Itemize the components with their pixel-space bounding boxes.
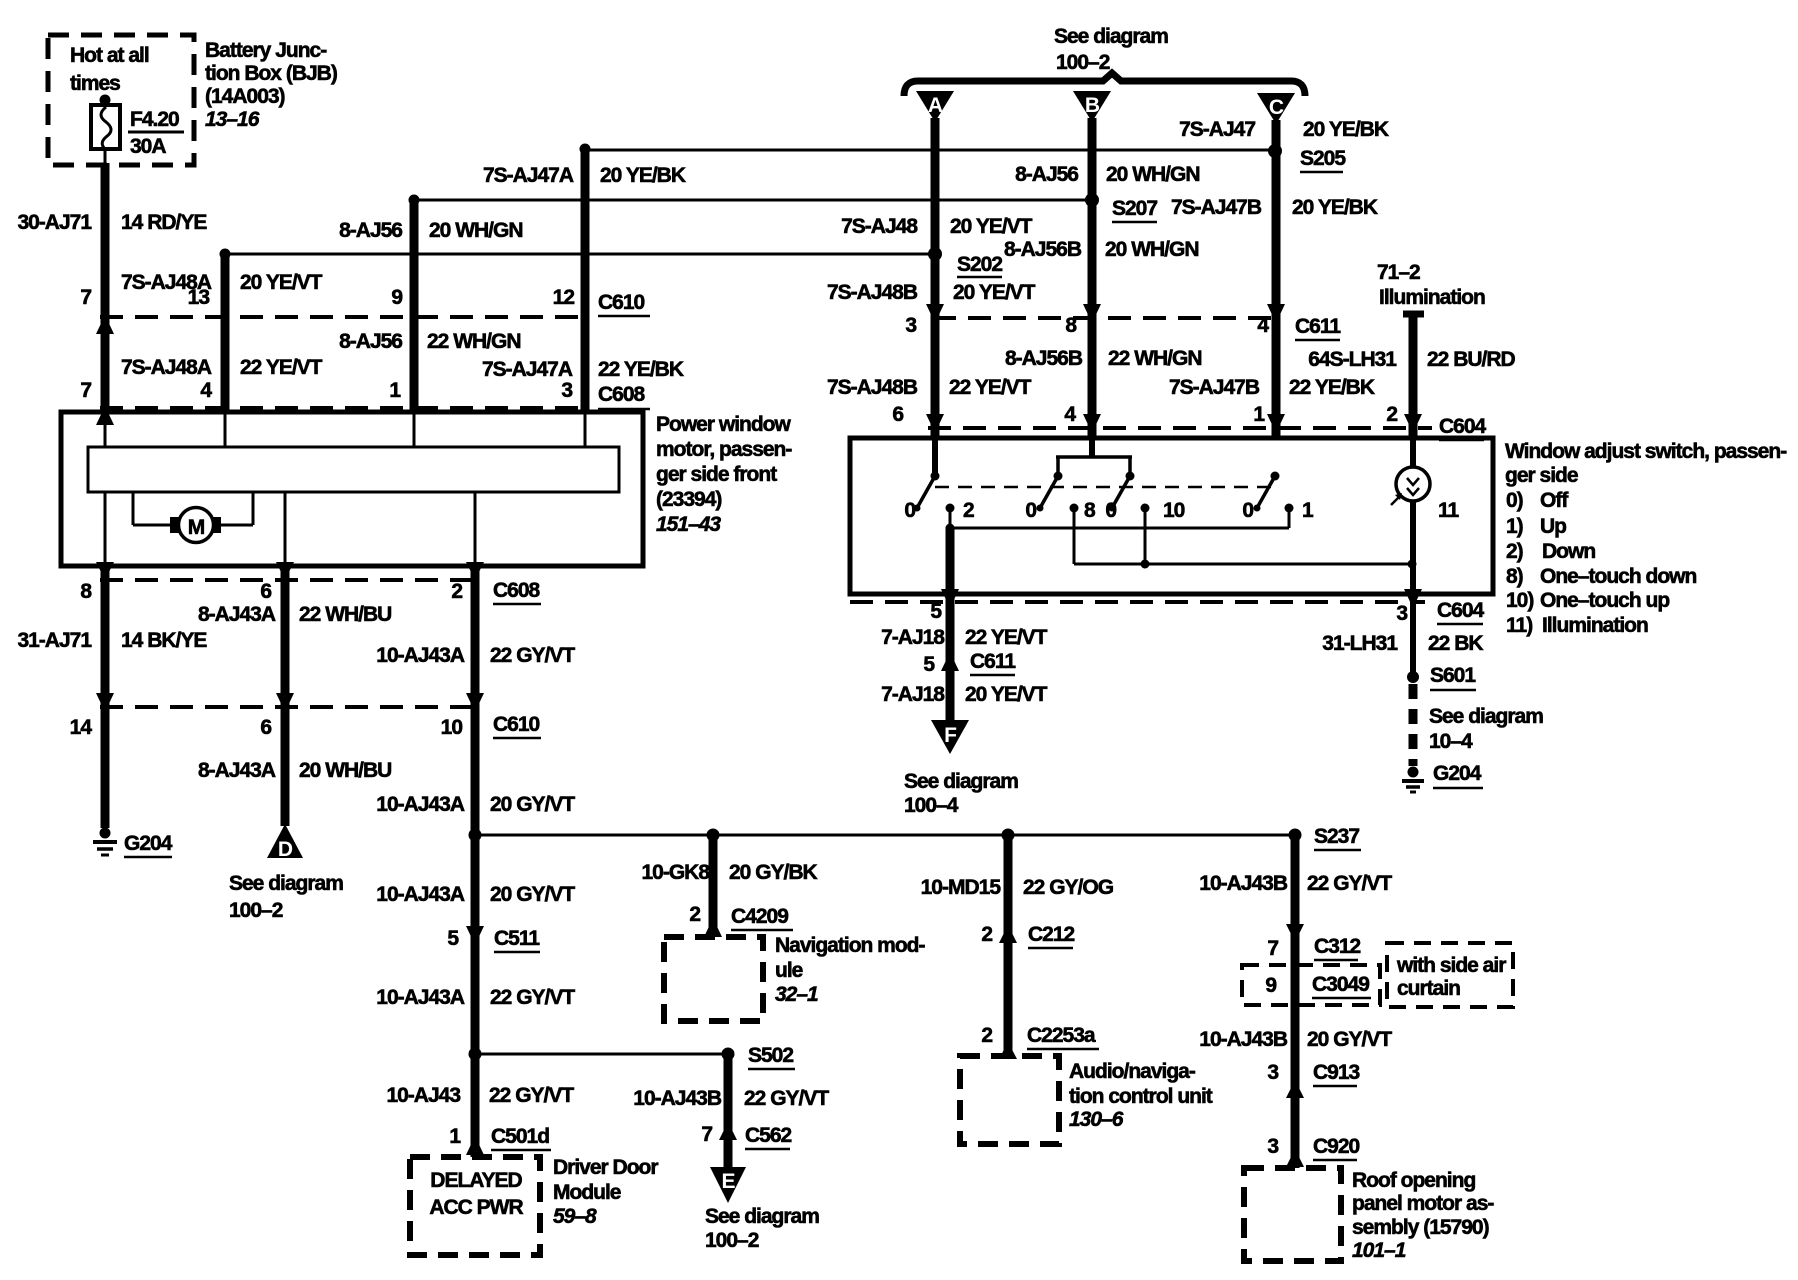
arrow on wire at C610 pin 7 [96,315,114,334]
label 7S-AJ48B 22 YE/VT [827,376,1032,399]
svg-text:G204: G204 [124,832,173,855]
label Power window motor [656,413,792,536]
label See diagram 100-2 (D) [229,872,343,922]
svg-text:2: 2 [689,903,700,926]
svg-text:5: 5 [930,600,942,623]
svg-text:M: M [188,516,205,539]
svg-text:101–1: 101–1 [1352,1239,1406,1262]
svg-text:11: 11 [1438,499,1460,522]
svg-text:Module: Module [553,1181,621,1204]
wires into motor box [105,413,585,447]
svg-text:Window adjust switch, passen-: Window adjust switch, passen- [1505,440,1787,463]
splice S237 [1289,825,1362,850]
svg-text:C604: C604 [1437,599,1485,622]
label 10-AJ43A 20 GY/VT (below junction) [376,883,575,906]
inline connector C312 pin 7 [1267,924,1360,960]
label 7S-AJ48 20 YE/VT [841,215,1033,238]
splice S601 [1407,664,1476,690]
legend 10) One-touch up [1506,589,1669,612]
junction dot 10-MD15 [1002,829,1015,842]
off-page arrow F [931,720,969,754]
legend 1) Up [1506,515,1566,538]
label Driver Door Module 59-8 [553,1156,658,1228]
svg-text:2: 2 [963,499,974,522]
svg-text:C611: C611 [970,650,1016,673]
svg-text:7S-AJ47A: 7S-AJ47A [482,358,573,381]
label C608 [598,383,650,409]
svg-text:ger side: ger side [1505,464,1578,487]
wire 30-AJ71 from fuse [104,148,107,413]
pin numbers C604 top [892,403,1397,426]
svg-text:100–2: 100–2 [1056,51,1110,74]
svg-text:C212: C212 [1028,923,1075,946]
svg-text:22 GY/VT: 22 GY/VT [489,1084,574,1107]
svg-text:S207: S207 [1112,197,1157,220]
svg-text:Roof opening: Roof opening [1352,1169,1475,1192]
svg-text:C610: C610 [598,291,645,314]
svg-text:22 YE/BK: 22 YE/BK [1289,376,1375,399]
svg-text:30-AJ71: 30-AJ71 [17,211,92,234]
label 10-AJ43 22 GY/VT [386,1084,574,1107]
svg-text:C562: C562 [745,1124,792,1147]
svg-text:10–4: 10–4 [1429,730,1473,753]
label 30-AJ71 14 RD/YE [17,211,207,234]
label C604 bottom [1437,599,1485,624]
svg-text:Navigation mod-: Navigation mod- [775,934,926,957]
svg-text:Hot at all: Hot at all [70,44,149,67]
pin numbers C610 [80,286,574,309]
svg-text:C501d: C501d [491,1125,549,1148]
fuse F4.20 30A [91,95,184,159]
svg-text:E: E [721,1170,735,1193]
svg-text:S202: S202 [957,253,1002,276]
svg-text:5: 5 [447,927,459,950]
svg-text:10-AJ43B: 10-AJ43B [633,1087,722,1110]
svg-text:motor, passen-: motor, passen- [656,438,792,461]
wire labels above C610 [121,271,323,294]
svg-text:20 GY/VT: 20 GY/VT [490,883,575,906]
splice S205 [1268,144,1346,172]
pin numbers C608 [80,379,572,402]
svg-text:C920: C920 [1313,1135,1360,1158]
svg-text:22 BK: 22 BK [1428,632,1483,655]
label C610 [598,291,650,316]
svg-text:C3049: C3049 [1312,973,1369,996]
label See diagram 100-4 [904,770,1018,817]
legend 2) Down [1506,540,1595,563]
inline connector C913 pin 3 [1267,1061,1359,1098]
svg-text:10-GK8: 10-GK8 [641,861,710,884]
switch 1 pole from wire A [914,438,940,512]
svg-text:20 WH/GN: 20 WH/GN [1105,238,1199,261]
svg-text:20 GY/VT: 20 GY/VT [490,793,575,816]
arrows at C604 entering switch [926,414,1422,433]
inline connector C562 pin 7 [701,1122,791,1149]
label 7S-AJ47B 22 YE/BK [1169,376,1375,399]
wire labels between C610 and C608 [121,356,323,379]
svg-text:sembly (15790): sembly (15790) [1352,1216,1489,1239]
wire 7S-AJ47A vertical [580,144,591,414]
switch 3 pole [1109,472,1135,512]
label C604 [1439,415,1487,440]
svg-text:5: 5 [923,653,935,676]
svg-text:1: 1 [1302,499,1314,522]
label C608 bottom [493,579,541,604]
svg-text:20 YE/BK: 20 YE/BK [1292,196,1378,219]
svg-text:7: 7 [1267,937,1278,960]
wire splice line to S205 [585,149,1275,152]
svg-text:100–4: 100–4 [904,794,959,817]
label G204 left [124,832,173,857]
off-page arrow D [267,824,303,861]
svg-text:Off: Off [1540,489,1569,512]
label C611 [1295,315,1341,340]
svg-text:tion control unit: tion control unit [1069,1085,1213,1108]
svg-text:0: 0 [1242,499,1253,522]
svg-text:ule: ule [775,959,803,982]
splice junction on 10-AJ43A [469,829,482,842]
svg-text:4: 4 [1257,314,1269,337]
svg-text:7S-AJ47A: 7S-AJ47A [483,164,574,187]
svg-text:S237: S237 [1314,825,1359,848]
svg-text:20 YE/VT: 20 YE/VT [965,683,1048,706]
svg-text:20 YE/BK: 20 YE/BK [600,164,686,187]
svg-text:10-AJ43A: 10-AJ43A [376,644,465,667]
svg-text:10: 10 [441,716,463,739]
svg-text:ACC PWR: ACC PWR [429,1196,523,1219]
label 8-AJ56B 20 WH/GN [1004,238,1199,261]
svg-text:7: 7 [701,1123,712,1146]
one-touch bridge from wire B [1056,438,1132,476]
svg-text:C604: C604 [1439,415,1487,438]
label Navigation module 32-1 [775,934,926,1006]
contact 1 [1285,499,1315,528]
label 8-AJ56 20 WH/GN [1015,163,1199,186]
svg-text:C4209: C4209 [731,905,788,928]
label 7-AJ18 20 YE/VT [881,683,1048,706]
inline connector C2253a pin 2 [981,1024,1099,1059]
window adjust switch box [850,438,1493,594]
label 10-AJ43B 22 GY/VT (right) [1199,872,1392,895]
svg-text:0: 0 [1105,499,1116,522]
ground G204 right [1402,767,1424,793]
svg-text:1: 1 [389,379,401,402]
label 31-LH31 22 BK [1322,632,1483,655]
svg-text:1: 1 [1253,403,1265,426]
audio navigation control unit dashed box [960,1056,1059,1144]
connector C608 dashed line (bottom) [100,578,480,582]
label 71-2 Illumination [1377,261,1485,309]
svg-text:59–8: 59–8 [553,1205,597,1228]
svg-text:0: 0 [904,499,915,522]
label See diagram 100-2 (top) [1054,25,1168,74]
wire to splice S502 [475,1053,728,1056]
svg-text:8-AJ56: 8-AJ56 [339,330,402,353]
wire from contact 2 to pin 5 [946,528,955,594]
svg-text:10: 10 [1163,499,1185,522]
svg-text:ger side front: ger side front [656,463,777,486]
svg-text:3: 3 [561,379,572,402]
svg-text:1: 1 [449,1125,461,1148]
arrow on wire at C608 pin 7 [96,406,114,425]
svg-text:71–2: 71–2 [1377,261,1420,284]
svg-text:7S-AJ48: 7S-AJ48 [841,215,918,238]
svg-text:8: 8 [1065,314,1077,337]
label 7-AJ18 22 YE/VT [881,626,1048,649]
label Hot at all times [70,44,149,95]
wire 10-AJ43B to C562 [724,1054,733,1167]
svg-text:7-AJ18: 7-AJ18 [881,626,945,649]
battery junction box dashed outline [48,35,194,165]
svg-text:1): 1) [1506,515,1523,538]
svg-text:8-AJ56B: 8-AJ56B [1004,238,1082,261]
svg-text:with side air: with side air [1396,954,1506,977]
svg-text:31-AJ71: 31-AJ71 [17,629,92,652]
wire C vertical [1272,120,1281,438]
svg-text:0: 0 [1025,499,1036,522]
svg-text:100–2: 100–2 [229,899,283,922]
off-page connector A [916,91,954,122]
label DELAYED ACC PWR [429,1169,523,1219]
svg-text:2): 2) [1506,540,1523,563]
svg-text:See diagram: See diagram [705,1205,819,1228]
svg-text:22 YE/VT: 22 YE/VT [240,356,323,379]
connector C611 dashed line [933,316,1283,320]
svg-text:22 YE/BK: 22 YE/BK [598,358,684,381]
arrows at C610 bottom [96,693,484,712]
svg-text:7: 7 [80,379,91,402]
svg-text:7-AJ18: 7-AJ18 [881,683,945,706]
connector C610 dashed line (top left) [100,315,588,319]
svg-text:Down: Down [1542,540,1595,563]
svg-text:6: 6 [260,716,271,739]
svg-text:14 RD/YE: 14 RD/YE [121,211,207,234]
svg-text:20 WH/GN: 20 WH/GN [1106,163,1200,186]
arrow at C604 pin 5 [930,589,959,623]
label 10-MD15 22 GY/OG [921,876,1114,899]
wire 31-LH31 from pin 3 [1410,594,1416,677]
optional connector C3049 dashed box [1242,965,1380,1005]
svg-text:panel motor as-: panel motor as- [1352,1192,1494,1215]
svg-text:B: B [1085,94,1100,117]
svg-text:curtain: curtain [1397,977,1460,1000]
svg-text:13–16: 13–16 [205,108,260,131]
svg-text:7S-AJ48A: 7S-AJ48A [121,356,212,379]
svg-text:130–6: 130–6 [1069,1108,1124,1131]
svg-text:8-AJ56: 8-AJ56 [339,219,402,242]
svg-text:See diagram: See diagram [1054,25,1168,48]
svg-text:4: 4 [200,379,212,402]
pin numbers C611 [905,314,1269,337]
connector C604 dashed line (top) [928,426,1432,430]
connector C604 dashed line (bottom) [850,600,1425,604]
switch bus upper [946,524,1290,533]
label 8-AJ43A 20 WH/BU [198,759,391,782]
label 7S-AJ48B 20 YE/VT [827,281,1036,304]
contact 8 [1070,499,1097,564]
svg-text:7S-AJ47: 7S-AJ47 [1179,118,1255,141]
label 7S-AJ47B 20 YE/BK [1171,196,1378,219]
arrow at C604 pin 3 [1396,589,1422,625]
svg-text:C: C [1269,96,1284,119]
svg-text:12: 12 [553,286,575,309]
svg-text:8-AJ56: 8-AJ56 [1015,163,1078,186]
svg-text:Audio/naviga-: Audio/naviga- [1069,1060,1196,1083]
wire 10-MD15 to audio unit [1004,835,1013,1056]
svg-text:C611: C611 [1295,315,1341,338]
svg-text:3: 3 [1396,602,1407,625]
svg-text:100–2: 100–2 [705,1229,759,1252]
legend 0) Off [1506,489,1569,512]
wire 8-AJ43A vertical [281,566,290,826]
off-page connector C [1257,93,1295,124]
svg-text:20 YE/VT: 20 YE/VT [240,271,323,294]
label 10-GK8 20 GY/BK [641,861,817,884]
svg-text:(14A003): (14A003) [205,85,285,108]
wire splice line to S202 [225,253,935,256]
svg-text:2: 2 [981,1024,992,1047]
wire 7S-AJ48A vertical [220,249,231,414]
svg-text:20 WH/BU: 20 WH/BU [299,759,391,782]
svg-text:22 YE/VT: 22 YE/VT [965,626,1048,649]
ground G204 left [93,828,117,856]
svg-text:22 YE/VT: 22 YE/VT [949,376,1032,399]
connector C608 dashed line (top left) [100,406,588,410]
svg-text:Power window: Power window [656,413,792,436]
svg-text:(23394): (23394) [656,488,721,511]
svg-text:20 YE/VT: 20 YE/VT [953,281,1036,304]
label 8-AJ43A 22 WH/BU [198,603,391,626]
svg-text:2: 2 [981,923,992,946]
svg-text:31-LH31: 31-LH31 [1322,632,1398,655]
svg-text:4: 4 [1064,403,1076,426]
svg-text:22 GY/VT: 22 GY/VT [490,644,575,667]
label Roof opening panel motor assembly [1352,1169,1494,1262]
svg-text:See diagram: See diagram [1429,705,1543,728]
legend 11) Illumination [1506,614,1648,637]
contact 10 [1141,499,1185,564]
svg-text:7S-AJ48B: 7S-AJ48B [827,281,918,304]
inline connector C4209 pin 2 [689,903,793,937]
wire B vertical [1088,118,1097,438]
label C610 bottom [493,713,541,738]
off-page connector B [1073,91,1111,122]
label 10-AJ43A 20 GY/VT [376,793,575,816]
svg-text:7S-AJ48B: 7S-AJ48B [827,376,918,399]
motor M symbol [179,508,214,543]
svg-text:10-AJ43B: 10-AJ43B [1199,872,1288,895]
label 10-AJ43A 22 GY/VT [376,644,575,667]
svg-text:8: 8 [80,580,92,603]
svg-text:D: D [278,838,293,861]
svg-text:S601: S601 [1430,664,1476,687]
svg-text:3: 3 [1267,1061,1278,1084]
illumination lamp [1391,438,1430,594]
label 64S-LH31 22 BU/RD [1308,348,1515,371]
svg-text:10-AJ43B: 10-AJ43B [1199,1028,1288,1051]
wire A vertical [931,118,940,438]
svg-text:22 GY/VT: 22 GY/VT [490,986,575,1009]
svg-text:6: 6 [260,580,271,603]
svg-text:G204: G204 [1433,762,1482,785]
svg-text:A: A [928,94,943,117]
svg-text:22 GY/VT: 22 GY/VT [744,1087,829,1110]
legend 8) One-touch down [1506,565,1697,588]
svg-text:See diagram: See diagram [229,872,343,895]
svg-text:7S-AJ47B: 7S-AJ47B [1169,376,1260,399]
svg-text:20 YE/BK: 20 YE/BK [1303,118,1389,141]
wire 31-AJ71 to ground [101,566,110,828]
label Battery Junction Box [205,39,337,131]
splice S207 [1085,193,1157,222]
svg-text:22 GY/VT: 22 GY/VT [1307,872,1392,895]
splice S202 [928,247,1002,277]
splice S502 [722,1044,796,1069]
switch 2 pole [1037,472,1063,512]
svg-text:C610: C610 [493,713,540,736]
svg-text:0): 0) [1506,489,1523,512]
svg-text:7S-AJ47B: 7S-AJ47B [1171,196,1262,219]
svg-text:22 WH/GN: 22 WH/GN [427,330,521,353]
svg-text:F: F [944,724,957,747]
svg-text:tion Box (BJB): tion Box (BJB) [205,62,337,85]
svg-text:times: times [70,72,120,95]
svg-text:Up: Up [1540,515,1566,538]
svg-text:10-AJ43: 10-AJ43 [386,1084,460,1107]
svg-text:10-MD15: 10-MD15 [921,876,1002,899]
svg-text:Battery Junc-: Battery Junc- [205,39,327,62]
svg-text:20 GY/VT: 20 GY/VT [1307,1028,1392,1051]
svg-text:14 BK/YE: 14 BK/YE [121,629,207,652]
arrows at C611 on wires A B C [926,304,1285,323]
svg-text:22 WH/BU: 22 WH/BU [299,603,391,626]
svg-text:C608: C608 [598,383,646,406]
svg-text:2: 2 [1386,403,1397,426]
svg-text:9: 9 [1265,974,1276,997]
svg-text:6: 6 [892,403,903,426]
wire splice line to S207 [414,199,1092,202]
svg-text:10): 10) [1506,589,1533,612]
svg-text:DELAYED: DELAYED [430,1169,522,1192]
label Audio/navigation control unit 130-6 [1069,1060,1213,1131]
connector C610 dashed line (bottom) [100,705,480,709]
svg-text:22 WH/GN: 22 WH/GN [1108,347,1202,370]
motor brushes [170,517,221,533]
off-page arrow E [710,1167,746,1203]
wires out of motor box [105,492,475,566]
svg-text:10-AJ43A: 10-AJ43A [376,883,465,906]
switch mechanical link dashed line [935,486,1275,489]
svg-text:S502: S502 [748,1044,793,1067]
svg-text:22 GY/OG: 22 GY/OG [1023,876,1114,899]
wire 10-AJ43B right branch [1291,835,1300,1168]
svg-text:22 BU/RD: 22 BU/RD [1427,348,1516,371]
wire 8-AJ56 vertical [409,195,420,414]
svg-text:20 GY/BK: 20 GY/BK [729,861,818,884]
label 10-AJ43B 20 GY/VT [1199,1028,1392,1051]
svg-text:20 YE/VT: 20 YE/VT [950,215,1033,238]
navigation module dashed box [664,937,763,1021]
label 8-AJ56B 22 WH/GN [1005,347,1202,370]
label 10-AJ43B 22 GY/VT (E branch) [633,1087,829,1110]
label Window adjust switch legend [1505,440,1787,487]
svg-text:C913: C913 [1313,1061,1360,1084]
svg-text:2: 2 [451,580,462,603]
switch bus lower [1074,560,1417,569]
arrows at C608 bottom [96,562,484,580]
pin numbers C608 bottom [80,580,462,603]
svg-text:Illumination: Illumination [1379,286,1485,309]
